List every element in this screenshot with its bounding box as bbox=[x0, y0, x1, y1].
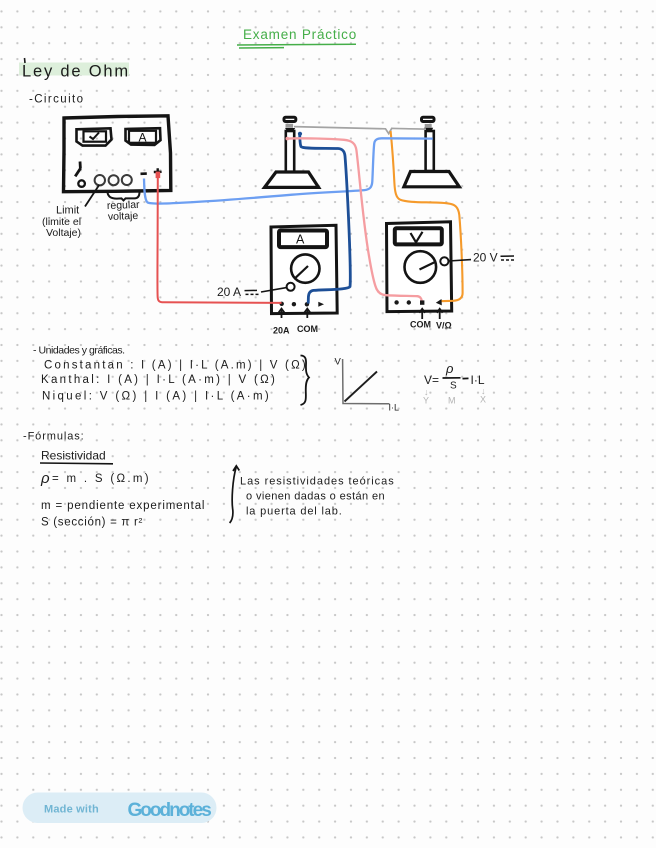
multimeter A (ammeter) body bbox=[271, 225, 337, 313]
pointer line Limit bbox=[85, 185, 99, 207]
voltmeter dial bbox=[405, 251, 437, 283]
right stand clamp (gray) bbox=[425, 124, 432, 128]
ammeter screen bbox=[279, 231, 327, 248]
svg-text:-Circuito: -Circuito bbox=[29, 94, 84, 106]
heading Ley de Ohm bbox=[19, 58, 130, 81]
multimeter V (voltmeter) body bbox=[387, 222, 452, 312]
PSU knob 3 bbox=[122, 175, 132, 185]
PSU ammeter display A bbox=[126, 128, 161, 145]
svg-text:Resistividad: Resistividad bbox=[41, 449, 106, 463]
svg-text:o vienen dadas o están en: o vienen dadas o están en bbox=[246, 491, 385, 503]
svg-text:V/Ω: V/Ω bbox=[436, 321, 452, 331]
wire gray test wire between stands bbox=[294, 127, 426, 134]
power supply PSU bbox=[64, 116, 171, 192]
label 20A jack bbox=[273, 326, 290, 336]
svg-text:la puerta del lab.: la puerta del lab. bbox=[246, 506, 343, 518]
formula seccion bbox=[41, 517, 143, 529]
svg-text:M: M bbox=[448, 396, 456, 406]
svg-text:Las resistividades teóricas: Las resistividades teóricas bbox=[240, 476, 395, 488]
label COM jack (ammeter) bbox=[297, 324, 318, 334]
svg-text:Examen Práctico: Examen Práctico bbox=[243, 27, 357, 42]
bracket resistividades bbox=[230, 466, 240, 523]
svg-text:Goodnotes: Goodnotes bbox=[128, 800, 212, 821]
graph labels bbox=[335, 357, 400, 413]
svg-text:Limit: Limit bbox=[56, 205, 79, 217]
graph V vs IL axes bbox=[343, 359, 390, 404]
svg-text:V: V bbox=[335, 357, 342, 368]
wire dark blue left stand to COM jack of ammeter bbox=[298, 132, 350, 304]
formula annotation arrows YMX bbox=[423, 386, 486, 406]
svg-text:COM: COM bbox=[410, 320, 431, 330]
brace regular voltaje bbox=[108, 193, 140, 201]
title Examen Practico bbox=[237, 27, 357, 48]
Goodnotes badge bbox=[23, 793, 217, 824]
svg-text:A: A bbox=[296, 233, 305, 247]
svg-text:m = pendiente experimental: m = pendiente experimental bbox=[41, 500, 205, 512]
wire light blue PSU minus to right stand bbox=[144, 138, 433, 203]
svg-text:I·L: I·L bbox=[471, 373, 485, 387]
svg-text:S: S bbox=[450, 381, 457, 392]
svg-text:X: X bbox=[480, 395, 486, 405]
svg-text:ρ: ρ bbox=[445, 361, 454, 376]
label Circuito bbox=[29, 94, 84, 106]
svg-text:S (sección) = π r²: S (sección) = π r² bbox=[41, 517, 143, 529]
PSU plus terminal bbox=[154, 168, 162, 175]
svg-text:voltaje: voltaje bbox=[108, 210, 139, 223]
label V/ohm jack bbox=[436, 321, 452, 331]
svg-text:20A: 20A bbox=[273, 326, 290, 336]
left stand pole bbox=[286, 131, 294, 172]
label regular voltaje bbox=[107, 199, 141, 223]
ammeter dial bbox=[291, 254, 319, 282]
svg-text:Made with: Made with bbox=[44, 804, 99, 816]
svg-text:Ley de Ohm: Ley de Ohm bbox=[22, 63, 130, 81]
svg-text:20 V: 20 V bbox=[473, 251, 498, 265]
voltmeter plug pins bbox=[419, 309, 442, 319]
label COM jack (voltmeter) bbox=[410, 320, 431, 330]
voltmeter jacks bbox=[394, 299, 441, 305]
formula pendiente bbox=[41, 500, 205, 512]
PSU power switch bbox=[75, 162, 85, 187]
svg-text:Niquel: V (Ω) | I (A) | I·L (A: Niquel: V (Ω) | I (A) | I·L (A·m) bbox=[42, 391, 271, 403]
section Unidades y graficas bbox=[33, 345, 308, 403]
right stand base bbox=[404, 172, 459, 187]
formula V = rho/S IL bbox=[424, 361, 485, 392]
formula rho = m S bbox=[40, 470, 151, 487]
ammeter range selector circle bbox=[287, 283, 295, 291]
svg-text:A: A bbox=[139, 131, 147, 145]
svg-text:- Unidades y gráficas.: - Unidades y gráficas. bbox=[33, 345, 125, 357]
label Limit (limite el Voltaje) bbox=[42, 205, 81, 240]
PSU knob 1 (limit) bbox=[95, 175, 105, 185]
svg-text:-Fórmulas:: -Fórmulas: bbox=[23, 431, 85, 443]
right stand pole bbox=[426, 131, 434, 171]
label 20 A DC bbox=[217, 285, 287, 299]
left stand base bbox=[265, 172, 319, 187]
svg-text:Kanthal: I (A) | I·L (A·m) | V: Kanthal: I (A) | I·L (A·m) | V (Ω) bbox=[41, 374, 277, 386]
wire red PSU plus to 20A jack of ammeter bbox=[156, 172, 282, 303]
svg-text:I·L: I·L bbox=[389, 403, 400, 413]
wire orange from test wire to V/ohm jack bbox=[391, 131, 463, 301]
left stand clamp (gray) bbox=[286, 124, 294, 128]
svg-text:= m . S (Ω.m): = m . S (Ω.m) bbox=[52, 473, 151, 485]
right stand clamp wedge bbox=[424, 128, 433, 131]
wire pink left stand to COM jack of voltmeter bbox=[286, 137, 423, 303]
ammeter plug pins bbox=[279, 309, 311, 318]
label 20 V DC bbox=[449, 251, 514, 265]
svg-text:V=: V= bbox=[424, 373, 439, 387]
voltmeter screen bbox=[395, 228, 442, 244]
svg-text:Y: Y bbox=[423, 396, 429, 406]
voltmeter range selector circle bbox=[440, 257, 448, 265]
svg-text:ρ: ρ bbox=[40, 470, 50, 487]
PSU knob 2 bbox=[109, 175, 119, 185]
note resistividades teoricas bbox=[240, 476, 395, 518]
PSU voltmeter display V bbox=[77, 128, 112, 145]
left stand knob bbox=[284, 117, 296, 121]
brace unidades bbox=[301, 356, 310, 406]
svg-text:Voltaje): Voltaje) bbox=[46, 227, 81, 239]
PSU minus terminal bbox=[141, 172, 147, 175]
section Formulas bbox=[23, 431, 113, 464]
left stand clamp wedge bbox=[285, 128, 295, 131]
svg-text:20 A: 20 A bbox=[217, 285, 241, 299]
right stand knob bbox=[422, 117, 435, 121]
ammeter jacks bbox=[280, 302, 325, 307]
svg-text:Constantan : I (A) | I·L (A.m): Constantan : I (A) | I·L (A.m) | V (Ω) bbox=[44, 360, 308, 372]
svg-text:COM: COM bbox=[297, 324, 318, 334]
